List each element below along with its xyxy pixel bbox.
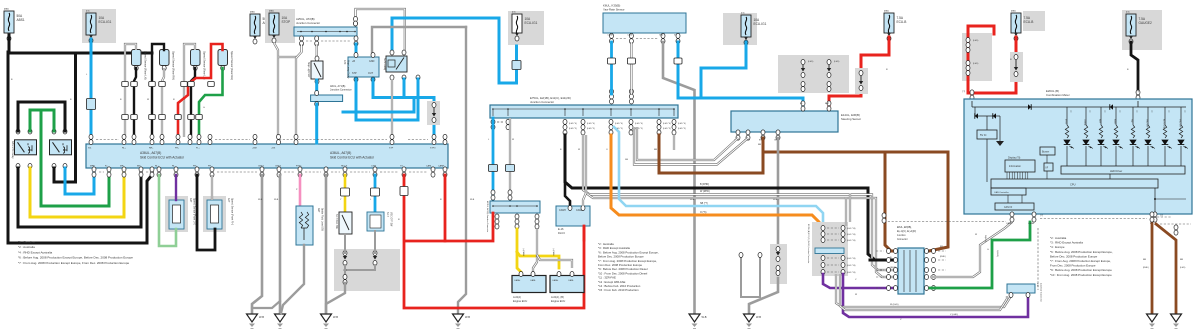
wire gray GND3 drop bbox=[325, 175, 328, 314]
switch brake fluid level warning bbox=[296, 206, 313, 245]
svg-text:*1 : Gasoline: *1 : Gasoline bbox=[18, 240, 36, 244]
svg-text:BAT: BAT bbox=[825, 102, 830, 105]
switch VSC OFF SW bbox=[367, 212, 384, 231]
svg-text:A5?UL, A6?(B) Junction Connect: A5?UL, A6?(B) Junction Connector bbox=[486, 201, 489, 232]
engine ECU No.1 bbox=[512, 276, 546, 293]
wire cyan CSW to VSC OFF switch bbox=[374, 175, 377, 212]
speed sensor rear 3 bbox=[191, 50, 201, 66]
wire black sensor1 return bbox=[134, 68, 136, 137]
fuse 10A STOP bbox=[265, 9, 295, 43]
ground GND3 bbox=[321, 314, 332, 322]
wire light green RL- loop to front sensor bbox=[159, 175, 176, 246]
svg-text:FR+: FR+ bbox=[193, 166, 198, 168]
svg-text:5V IC: 5V IC bbox=[980, 133, 987, 137]
svg-text:Junction Connector: Junction Connector bbox=[1040, 283, 1043, 302]
junction connector E7 E6(B) E11(C) E11(D) bbox=[490, 105, 678, 118]
svg-text:SB (*7): SB (*7) bbox=[700, 202, 708, 205]
connector DLC3 E-16 bbox=[556, 206, 590, 226]
svg-text:IG: IG bbox=[800, 103, 803, 105]
svg-text:FR-: FR- bbox=[208, 166, 212, 168]
svg-text:(*7): (*7) bbox=[1040, 215, 1043, 217]
svg-text:(*7): (*7) bbox=[1136, 91, 1140, 93]
wire white sensor2 return bbox=[162, 68, 164, 137]
svg-text:(LHD): (LHD) bbox=[973, 40, 979, 42]
sensor harness connectors row2 bbox=[122, 115, 129, 120]
svg-text:O (*6): O (*6) bbox=[700, 211, 707, 214]
svg-text:E(+1)(C), E(+4)(D): E(+1)(C), E(+4)(D) bbox=[897, 231, 916, 233]
wire yellow CANH to engine ECU2 bbox=[517, 252, 559, 268]
speed sensor rear 2 bbox=[160, 50, 170, 66]
svg-text:S-1? DAC SW: S-1? DAC SW bbox=[335, 214, 338, 230]
relay bottom pins bbox=[16, 164, 20, 169]
svg-text:GAUGE2: GAUGE2 bbox=[1139, 21, 1153, 25]
dashed link meter to E9 bbox=[1037, 228, 1039, 290]
svg-text:Speed Sensor (Rear RH): Speed Sensor (Rear RH) bbox=[230, 51, 234, 80]
wire black relay bridge bbox=[18, 102, 65, 131]
E7 bottom pin stacks bbox=[491, 119, 495, 124]
wire white sensor3 arch bbox=[184, 44, 195, 137]
wire white stack to junction E9 second bbox=[840, 274, 1007, 310]
speed sensor rear 1 bbox=[132, 50, 142, 66]
wire cyan ECU-IG1 No.3 branch bbox=[701, 42, 746, 98]
E7 top pin stacks bbox=[610, 89, 614, 94]
svg-text:W-B: W-B bbox=[470, 199, 475, 201]
junction bar on stack bbox=[815, 248, 844, 254]
svg-text:(LHD *14): (LHD *14) bbox=[847, 240, 856, 242]
wire white meter CANL to E8 bbox=[930, 222, 1012, 277]
ground steering bbox=[744, 314, 755, 322]
wire black FR+ loop to front sensor bbox=[197, 175, 215, 250]
wire yellow CANH to engine ECU1 bbox=[517, 229, 521, 272]
svg-text:Speed Sensor (Rear RH): Speed Sensor (Rear RH) bbox=[172, 51, 176, 80]
svg-text:O: O bbox=[606, 149, 608, 151]
svg-text:(BAT): (BAT) bbox=[884, 10, 889, 13]
speed sensor front RH bbox=[203, 196, 226, 232]
meter 5V regulator branch bbox=[974, 107, 976, 116]
wire purple stack to E8 bbox=[823, 274, 898, 288]
svg-text:Charge: Charge bbox=[1084, 119, 1086, 126]
svg-text:FSW+: FSW+ bbox=[296, 166, 303, 168]
svg-text:BR: BR bbox=[758, 144, 761, 146]
svg-text:W-B: W-B bbox=[756, 315, 761, 319]
svg-text:Junction Connector: Junction Connector bbox=[296, 21, 320, 25]
svg-text:MRF: MRF bbox=[90, 166, 95, 168]
svg-text:(+)CANL: (+)CANL bbox=[552, 248, 555, 257]
svg-text:RL+: RL+ bbox=[155, 166, 160, 168]
E8 left pins bbox=[894, 249, 898, 254]
meter top pins bbox=[970, 90, 974, 95]
ECU bottom pins bbox=[92, 167, 96, 172]
wire white pair into stack bbox=[849, 194, 851, 223]
diode on rail right bbox=[1110, 104, 1113, 110]
svg-text:A70: A70 bbox=[343, 60, 346, 65]
fuse 7.5A ECU-B No.2 bbox=[1023, 11, 1045, 31]
meter bottom pins bbox=[1010, 212, 1014, 217]
svg-text:*6 : Before Aug. 2008 Producti: *6 : Before Aug. 2008 Production Except … bbox=[18, 256, 133, 260]
svg-text:Junction: Junction bbox=[897, 234, 906, 237]
svg-text:Junction Connector: Junction Connector bbox=[530, 100, 554, 104]
svg-text:*15 : From Feb. 2010 Productio: *15 : From Feb. 2010 Production bbox=[598, 288, 639, 292]
svg-text:VSC OFF SW: VSC OFF SW bbox=[390, 212, 392, 227]
svg-text:CPU: CPU bbox=[1070, 183, 1076, 187]
ground GND2 bbox=[275, 314, 286, 322]
svg-text:(LHD *14): (LHD *14) bbox=[847, 258, 856, 260]
svg-text:(BAT): (BAT) bbox=[250, 11, 255, 14]
in-harness connector on +BS wire bbox=[427, 101, 440, 125]
wire white pair E7 to E8 no1 bbox=[583, 135, 898, 270]
svg-text:OUT: OUT bbox=[368, 72, 374, 75]
svg-text:*4 : RHD Except Australia: *4 : RHD Except Australia bbox=[18, 250, 53, 254]
svg-text:(LHD *14): (LHD *14) bbox=[847, 228, 856, 230]
svg-text:(LHD *5): (LHD *5) bbox=[569, 128, 577, 130]
svg-text:W-B: W-B bbox=[258, 199, 263, 201]
svg-text:Engine ECU: Engine ECU bbox=[551, 299, 565, 303]
wire white E7 spare bbox=[673, 135, 675, 150]
svg-text:ECU-IG1: ECU-IG1 bbox=[99, 20, 112, 24]
switch stop light switch A34 bbox=[315, 56, 319, 61]
wire sky blue E7 to combi junction bbox=[614, 127, 823, 229]
svg-text:G: G bbox=[203, 107, 205, 109]
meter internal top rail bbox=[972, 106, 1186, 108]
svg-text:STP: STP bbox=[389, 148, 394, 150]
meter information box bbox=[1005, 160, 1035, 172]
svg-text:(LHD *4): (LHD *4) bbox=[663, 123, 671, 125]
wire brown branch to E8 left bbox=[885, 152, 895, 251]
svg-text:(LHD *5): (LHD *5) bbox=[678, 128, 686, 130]
junction connector A25(A) AT2(B) bbox=[294, 27, 357, 36]
svg-text:+B: +B bbox=[352, 60, 355, 63]
svg-text:*3 : RHD Except Australia: *3 : RHD Except Australia bbox=[1050, 241, 1083, 245]
wire orange E7 to combi junction bbox=[611, 135, 823, 237]
svg-text:W (LHD): W (LHD) bbox=[890, 304, 899, 306]
wire cyan STP Z-path bbox=[356, 79, 418, 120]
in-harness stack to combination meter bbox=[812, 222, 848, 276]
wire gray long drop right bbox=[458, 27, 466, 314]
wire yellow HDCS to DAC switch bbox=[344, 175, 347, 212]
svg-text:ECU-B: ECU-B bbox=[1024, 20, 1034, 24]
svg-text:*9 : Before Aug. 2008 Producti: *9 : Before Aug. 2008 Production Except … bbox=[1050, 268, 1112, 272]
svg-text:CAN I/F: CAN I/F bbox=[1004, 206, 1013, 209]
shield drain U bbox=[741, 258, 760, 297]
svg-text:Skid Control ECU with Actuator: Skid Control ECU with Actuator bbox=[330, 156, 375, 160]
meter CPU box bbox=[991, 179, 1158, 188]
svg-text:(LHD *5): (LHD *5) bbox=[587, 128, 595, 130]
svg-text:*7 : From Aug. 2008 Production: *7 : From Aug. 2008 Production Except Eu… bbox=[1050, 259, 1111, 263]
fuse 10A ECU-IG1 No.1 bbox=[82, 9, 116, 43]
engine junction pins bbox=[495, 214, 499, 219]
wire purple stack to junction E9 bbox=[843, 274, 1028, 317]
svg-text:CANL: CANL bbox=[627, 34, 632, 37]
svg-text:GND1: GND1 bbox=[258, 166, 265, 168]
meter LED driver box bbox=[1061, 166, 1185, 174]
svg-text:(BAT): (BAT) bbox=[269, 10, 274, 13]
svg-text:(LHD *14): (LHD *14) bbox=[847, 265, 856, 267]
ground TS area bbox=[453, 314, 464, 322]
svg-text:Speed Sensor (Rear LH): Speed Sensor (Rear LH) bbox=[203, 51, 207, 80]
svg-text:ECU-B: ECU-B bbox=[897, 20, 907, 24]
wire red CANH jumper bbox=[444, 175, 447, 241]
in-harness connector below ECU-B No.2 fuse bbox=[1010, 52, 1023, 82]
svg-text:Skid Control ECU with Actuator: Skid Control ECU with Actuator bbox=[140, 156, 185, 160]
svg-text:Connector: Connector bbox=[897, 238, 908, 241]
svg-text:G: G bbox=[987, 249, 989, 251]
svg-text:*2 : Australia: *2 : Australia bbox=[1050, 236, 1067, 240]
svg-text:ABS1: ABS1 bbox=[17, 18, 25, 22]
wire white SRM to ECU pin bbox=[391, 79, 393, 143]
wire cyan U relay to MRF bbox=[65, 168, 94, 194]
svg-text:ECU-IG1: ECU-IG1 bbox=[754, 22, 767, 26]
fuse 10A ECU-IG1 No.3 bbox=[723, 13, 757, 45]
wire brown branch to E8 junction bbox=[763, 152, 948, 251]
wire white A25 to stop light switch bbox=[316, 44, 318, 61]
svg-text:From Dec. 2008 Production Euro: From Dec. 2008 Production Europe bbox=[1050, 264, 1096, 268]
diode on rail left bbox=[1028, 104, 1031, 110]
svg-text:RL+: RL+ bbox=[122, 148, 127, 150]
svg-text:W-B: W-B bbox=[465, 315, 470, 319]
svg-text:STOP: STOP bbox=[282, 20, 291, 24]
wire white CANL to engine ECU2 bbox=[537, 255, 572, 268]
meter warning lamp chains bbox=[1066, 107, 1068, 125]
wire cyan yaw CANH to E7 bbox=[610, 42, 613, 94]
wire gray yaw GND drop bbox=[663, 42, 695, 314]
wire green sensor4 return bbox=[199, 68, 223, 137]
wire gray ground bus bbox=[372, 27, 466, 57]
junction connector No.2 bbox=[490, 201, 540, 213]
speed sensor rear 4 bbox=[218, 50, 228, 66]
svg-text:(RHD): (RHD) bbox=[1143, 267, 1149, 269]
svg-text:E8UL, E8(6B),: E8UL, E8(6B), bbox=[897, 227, 912, 229]
junction connector A71(B) bbox=[311, 95, 343, 102]
svg-text:(LHD *4): (LHD *4) bbox=[569, 123, 577, 125]
svg-text:G(LHD): G(LHD) bbox=[996, 250, 998, 257]
ground meter 1 bbox=[1147, 314, 1158, 322]
in-harness connector on ECU-B wire bbox=[855, 68, 868, 94]
svg-text:Combination Meter: Combination Meter bbox=[1046, 93, 1070, 97]
svg-text:CAN Controller: CAN Controller bbox=[994, 191, 1009, 194]
svg-text:W-B: W-B bbox=[702, 315, 707, 319]
svg-text:(BAT): (BAT) bbox=[1011, 10, 1016, 13]
wire purple RL+ to front sensor bbox=[175, 175, 177, 200]
relay A70 stop lamp relay bbox=[348, 57, 379, 77]
svg-text:E1?UL (B) E1? (C) (D+1D) Junct: E1?UL (B) E1? (C) (D+1D) Junction Connec… bbox=[807, 224, 810, 264]
svg-text:Display (*9): Display (*9) bbox=[1008, 157, 1021, 160]
wire gray steering GND drop bbox=[777, 138, 780, 244]
svg-text:Steering Sensor: Steering Sensor bbox=[841, 117, 861, 121]
junction connector E9 bbox=[1007, 284, 1035, 293]
svg-text:*4 : Europe: *4 : Europe bbox=[1050, 245, 1065, 249]
svg-text:+BM: +BM bbox=[252, 148, 257, 150]
wire white steering CANL to E7 bbox=[637, 127, 738, 160]
svg-text:Engine ECU: Engine ECU bbox=[513, 299, 527, 303]
svg-text:W-B: W-B bbox=[690, 199, 695, 201]
wire cyan switch to junction A71 bbox=[315, 80, 318, 96]
svg-text:CANH: CANH bbox=[559, 209, 566, 212]
wire red DLC3 bottom bbox=[583, 226, 586, 240]
speed sensor front LH bbox=[165, 196, 188, 232]
ground yaw GND bbox=[689, 314, 700, 322]
wire black bus drop to relay bbox=[54, 53, 76, 182]
wire black branch to DLC3 bbox=[565, 182, 570, 206]
wire cyan SRM pin2 drop bbox=[403, 79, 406, 98]
svg-text:BR: BR bbox=[654, 149, 657, 151]
svg-text:CANL: CANL bbox=[426, 165, 433, 168]
svg-text:*10 : From Aug. 2008 Productio: *10 : From Aug. 2008 Production Except E… bbox=[1050, 273, 1112, 277]
junction connector A5 on IG1 No.2 wire bbox=[512, 61, 521, 70]
steering bottom pins bbox=[736, 130, 740, 135]
svg-text:CANH: CANH bbox=[438, 165, 445, 168]
wire black sensor3 return bbox=[191, 68, 195, 137]
in-harness panel ECU-B No.2 bbox=[962, 33, 992, 81]
svg-text:(LHD *14): (LHD *14) bbox=[847, 272, 856, 274]
ground meter 2 bbox=[1171, 314, 1182, 322]
svg-text:(IG): (IG) bbox=[1126, 12, 1130, 14]
wire cyan yaw IG feed bbox=[678, 42, 803, 107]
svg-text:W-B: W-B bbox=[274, 199, 279, 201]
svg-text:SRM Relay: SRM Relay bbox=[383, 58, 386, 71]
wire cyan A71 bus riser bbox=[343, 98, 414, 113]
svg-text:A3?: A3? bbox=[189, 198, 192, 203]
svg-text:A4?: A4? bbox=[227, 198, 230, 203]
wire black GAUGE2 to meter bbox=[1131, 42, 1138, 99]
svg-text:GND: GND bbox=[659, 35, 664, 37]
svg-text:*6 : Before Aug. 2008 Producti: *6 : Before Aug. 2008 Production Except … bbox=[1050, 250, 1113, 254]
yaw rate sensor K6(A) K35(B) bbox=[603, 13, 686, 33]
wire white yaw CANL to E7 bbox=[630, 42, 632, 94]
wire white arch junction to SRM relay bbox=[356, 9, 405, 50]
svg-text:Brake Fluid Level SW: Brake Fluid Level SW bbox=[321, 208, 324, 232]
engine ECU No.2 bbox=[550, 276, 584, 293]
svg-text:GND: GND bbox=[369, 60, 375, 63]
svg-text:CANH: CANH bbox=[514, 279, 521, 282]
wire cyan drop to +BS pin bbox=[433, 98, 436, 144]
wire white A25 to STOP branch bbox=[296, 44, 302, 58]
steering top pins bbox=[801, 101, 805, 106]
wire white stack to junction E9 bbox=[836, 274, 1011, 307]
wire gray switch ground drop bbox=[326, 283, 345, 312]
svg-text:CANL: CANL bbox=[568, 279, 575, 282]
junction connector A12 on IG1 wire bbox=[87, 99, 96, 110]
svg-text:ABS: ABS bbox=[1099, 119, 1102, 124]
wire black U relay to BM bbox=[18, 168, 141, 227]
svg-text:*7 : From Aug. 2008 Production: *7 : From Aug. 2008 Production Except Eu… bbox=[18, 261, 130, 265]
in-harness connector on steering GND bbox=[770, 244, 787, 284]
ECU A36(A) A67(B) Skid Control ECU with Actuator bbox=[86, 144, 448, 168]
svg-text:Before Dec. 2008 Production Eu: Before Dec. 2008 Production Europe bbox=[1050, 254, 1098, 258]
in-harness panel above steering sensor bbox=[778, 55, 849, 93]
svg-text:*2 : Australia: *2 : Australia bbox=[18, 245, 35, 249]
wire gray GND1 drop bbox=[252, 175, 262, 314]
svg-text:(IG): (IG) bbox=[512, 12, 516, 14]
wire gray brake switch ground bbox=[281, 245, 304, 313]
wire cyan E7 CANH to engine junction bbox=[492, 118, 495, 201]
svg-text:Speed Sensor (Front LH): Speed Sensor (Front LH) bbox=[193, 198, 196, 225]
wire cyan ECU-IG1 to ECU IG1 pin bbox=[90, 39, 93, 138]
svg-text:(LHD *14): (LHD *14) bbox=[847, 234, 856, 236]
svg-text:CANH: CANH bbox=[1028, 222, 1035, 225]
svg-text:(LHD): (LHD) bbox=[973, 63, 979, 65]
wire white steering CANH to E7 bbox=[634, 127, 748, 165]
svg-text:BM: BM bbox=[137, 166, 140, 168]
svg-text:Buzzer: Buzzer bbox=[1042, 151, 1049, 154]
wire cyan A71 to ECU STP pin bbox=[315, 104, 318, 143]
svg-text:Yaw Rate Sensor: Yaw Rate Sensor bbox=[603, 8, 625, 12]
wire brown meter ground 2 bbox=[1156, 224, 1176, 314]
svg-text:+BS: +BS bbox=[271, 148, 276, 150]
wire black left drop to motor loop bbox=[8, 52, 152, 243]
svg-text:(LHD *4): (LHD *4) bbox=[615, 123, 623, 125]
wire black E7 CAN main bbox=[565, 135, 898, 260]
svg-text:(*7): (*7) bbox=[962, 91, 966, 93]
svg-text:B (RHD): B (RHD) bbox=[700, 183, 709, 186]
svg-text:(RHD): (RHD) bbox=[940, 256, 946, 258]
svg-text:A6?: A6? bbox=[317, 208, 320, 213]
svg-text:(LHD): (LHD) bbox=[1180, 267, 1186, 269]
wire white E7 CANL to engine junction bbox=[509, 118, 511, 201]
svg-text:STP0: STP0 bbox=[430, 148, 436, 150]
svg-text:Junction Connector: Junction Connector bbox=[330, 89, 352, 92]
wire red sensor4 arch bbox=[178, 44, 223, 137]
svg-text:ECU-IG1: ECU-IG1 bbox=[525, 21, 538, 25]
wire green relay bridge bbox=[30, 110, 54, 131]
wire white STOP to ECU pin bbox=[274, 43, 278, 138]
wire pink FSW+ to brake switch bbox=[299, 175, 302, 207]
ground GND1 bbox=[247, 314, 258, 322]
wire red junction to TS bus bbox=[405, 213, 493, 241]
steering sensor E14(A) E36(B) bbox=[731, 111, 838, 132]
svg-text:A-D(A), (B): A-D(A), (B) bbox=[551, 295, 564, 299]
meter CAN controller box bbox=[991, 188, 1026, 195]
svg-text:(BAT): (BAT) bbox=[4, 8, 9, 11]
meter 5V IC box bbox=[977, 130, 997, 139]
svg-text:RR+: RR+ bbox=[149, 148, 154, 150]
svg-text:ABS MTR Relay: ABS MTR Relay bbox=[11, 141, 14, 159]
relay ABS MTR relay bbox=[15, 140, 37, 155]
wire cyan A25 to stop lamp relay +B bbox=[355, 44, 358, 58]
switch downhill assist control SW bbox=[339, 212, 352, 234]
svg-text:Stop Lamp Relay: Stop Lamp Relay bbox=[347, 60, 350, 79]
wire black main feed horizontal bbox=[8, 52, 152, 55]
svg-text:(LHD *5): (LHD *5) bbox=[663, 128, 671, 130]
svg-text:BR: BR bbox=[1143, 259, 1146, 261]
svg-text:CANH: CANH bbox=[552, 279, 559, 282]
svg-text:W (RHD): W (RHD) bbox=[700, 190, 710, 193]
wire yellow U relay to MR bbox=[30, 168, 124, 217]
svg-text:Speed Sensor (Front RH): Speed Sensor (Front RH) bbox=[231, 198, 234, 225]
wire gray steering GND to ground bbox=[749, 278, 778, 314]
meter display comb bbox=[1006, 172, 1008, 179]
svg-text:(LHD *4): (LHD *4) bbox=[635, 123, 643, 125]
svg-text:HDCS: HDCS bbox=[341, 166, 348, 168]
wire white to DLC3 CANL bbox=[583, 193, 586, 206]
svg-text:(LHD *4): (LHD *4) bbox=[678, 123, 686, 125]
svg-text:(LHD): (LHD) bbox=[808, 61, 814, 63]
svg-text:VSC OFF: VSC OFF bbox=[1179, 119, 1181, 128]
meter right pin drop bbox=[1154, 188, 1156, 213]
wire red into meter bbox=[971, 93, 974, 99]
svg-text:(LHD *4): (LHD *4) bbox=[587, 123, 595, 125]
wire brown E7 to steering ESS loop bbox=[659, 135, 763, 173]
meter IF box bbox=[1044, 163, 1053, 171]
wire brown meter ground 1 bbox=[1151, 222, 1154, 314]
svg-text:DLC3: DLC3 bbox=[558, 231, 565, 235]
wire black ABS1 feed down bbox=[8, 35, 11, 53]
svg-text:Speed Sensor (Rear LH): Speed Sensor (Rear LH) bbox=[144, 51, 148, 80]
wire white CANL to engine ECU1 bbox=[533, 229, 537, 272]
wire gray GND2 drop bbox=[279, 175, 282, 314]
svg-text:V (LHD): V (LHD) bbox=[950, 314, 958, 316]
svg-text:Brake: Brake bbox=[1114, 119, 1116, 125]
meter CAN IF box bbox=[995, 203, 1034, 210]
